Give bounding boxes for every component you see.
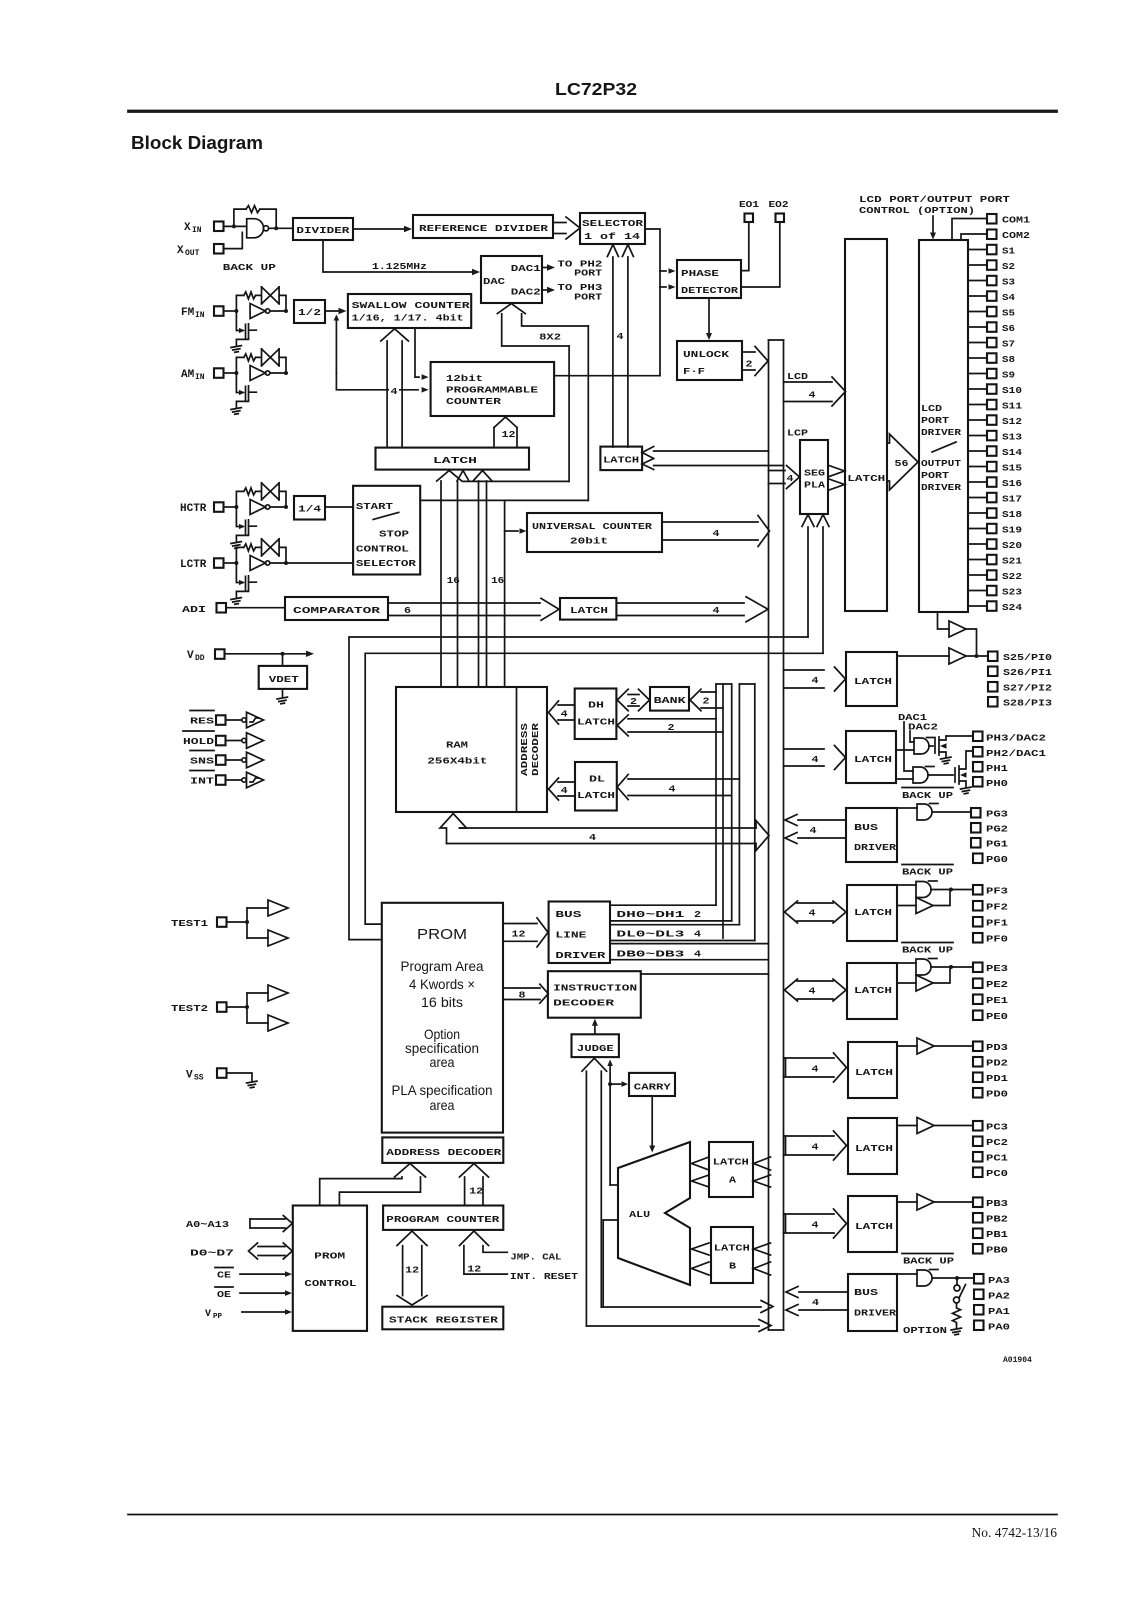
wire weave verticals to bus line driver bbox=[716, 683, 732, 685]
svg-text:S14: S14 bbox=[1002, 447, 1022, 458]
block CARRY bbox=[629, 1073, 675, 1096]
svg-text:S9: S9 bbox=[1002, 370, 1015, 381]
svg-text:S10: S10 bbox=[1002, 385, 1022, 396]
wire XOUT to NAND bbox=[224, 232, 243, 248]
svg-text:AM: AM bbox=[181, 369, 195, 381]
pad S19 bbox=[968, 528, 987, 530]
pad EO2 bbox=[776, 214, 785, 223]
svg-text:TEST2: TEST2 bbox=[171, 1003, 208, 1014]
svg-text:16 bits: 16 bits bbox=[421, 994, 463, 1010]
pad PE0 bbox=[973, 1011, 983, 1021]
block latch PC bbox=[848, 1118, 897, 1174]
wire divider to reference divider bbox=[353, 228, 404, 230]
block PHASE DETECTOR bbox=[677, 260, 741, 298]
bus program counter to address decoder 12 bbox=[464, 1177, 466, 1206]
svg-text:4: 4 bbox=[787, 473, 794, 484]
svg-text:PA1: PA1 bbox=[988, 1306, 1010, 1317]
svg-text:ADI: ADI bbox=[182, 604, 206, 615]
block INSTRUCTION DECODER bbox=[548, 971, 641, 1018]
svg-text:S22: S22 bbox=[1002, 571, 1022, 582]
bus 4 to latch PD bbox=[784, 1057, 835, 1059]
svg-text:LCD PORT/OUTPUT PORT: LCD PORT/OUTPUT PORT bbox=[859, 194, 1010, 205]
pad S7 bbox=[968, 342, 987, 344]
svg-text:PE1: PE1 bbox=[986, 995, 1008, 1006]
block BUS DRIVER PA bbox=[848, 1274, 897, 1331]
block COMPARATOR bbox=[285, 597, 388, 620]
svg-text:S23: S23 bbox=[1002, 587, 1022, 598]
bus 4 from PA driver to main bus bbox=[799, 1291, 848, 1293]
svg-text:12: 12 bbox=[405, 1265, 419, 1276]
resistor HCTR feedback bbox=[244, 488, 256, 495]
pad S22 bbox=[968, 574, 987, 576]
svg-text:VDET: VDET bbox=[269, 674, 299, 685]
pad S12 bbox=[968, 419, 987, 421]
ground FMIN FET bbox=[231, 346, 242, 353]
svg-text:PG2: PG2 bbox=[986, 824, 1008, 835]
svg-text:ADDRESS: ADDRESS bbox=[519, 723, 530, 776]
pad S13 bbox=[968, 435, 987, 437]
svg-text:PD2: PD2 bbox=[986, 1058, 1008, 1069]
block VDET bbox=[282, 654, 284, 666]
svg-text:Program Area: Program Area bbox=[401, 958, 484, 974]
svg-text:S2: S2 bbox=[1002, 261, 1015, 272]
pad PH2/DAC1 bbox=[973, 747, 983, 757]
svg-text:PORT: PORT bbox=[921, 470, 949, 481]
ground LCTR FET bbox=[231, 598, 242, 605]
wire VDD bbox=[225, 653, 307, 655]
wire ALU stub bbox=[603, 1219, 618, 1221]
svg-text:STOP: STOP bbox=[379, 529, 409, 540]
main data bus vertical pair bbox=[768, 340, 770, 1330]
wire FMIN feedback loop bbox=[236, 295, 243, 311]
svg-text:EO2: EO2 bbox=[769, 199, 789, 210]
bus RAM bottom 4 to main bus bbox=[440, 814, 467, 844]
transistor FMIN input FET bbox=[236, 311, 243, 331]
svg-text:PG3: PG3 bbox=[986, 809, 1008, 820]
svg-text:4: 4 bbox=[713, 605, 720, 616]
block 12bit PROGRAMMABLE COUNTER bbox=[431, 362, 554, 416]
bus PROM to instruction decoder 8 bbox=[503, 987, 540, 989]
svg-text:TEST1: TEST1 bbox=[171, 918, 208, 929]
bus PROM to bus line driver 12 bbox=[503, 923, 537, 925]
svg-text:S3: S3 bbox=[1002, 277, 1015, 288]
buffer PD3 bbox=[897, 1045, 917, 1047]
pad PE3 bbox=[973, 963, 983, 973]
pad PD2 bbox=[973, 1057, 983, 1067]
block latch PE bbox=[847, 963, 897, 1019]
svg-text:B: B bbox=[729, 1261, 736, 1272]
pad S9 bbox=[968, 373, 987, 375]
svg-text:1/4: 1/4 bbox=[298, 504, 321, 515]
svg-text:PE2: PE2 bbox=[986, 979, 1008, 990]
pad PB1 bbox=[973, 1229, 983, 1239]
svg-text:16: 16 bbox=[447, 575, 460, 586]
wire PLA spec line lower bbox=[365, 653, 823, 924]
svg-text:HOLD: HOLD bbox=[183, 736, 214, 747]
svg-text:8: 8 bbox=[519, 990, 526, 1001]
bus 4 from PG driver to main bus bbox=[798, 819, 846, 821]
svg-text:4: 4 bbox=[669, 784, 676, 795]
bus ADI latch to main bus bbox=[616, 602, 744, 604]
svg-text:PORT: PORT bbox=[921, 415, 949, 426]
svg-text:PA3: PA3 bbox=[988, 1275, 1010, 1286]
pad PC3 bbox=[973, 1121, 983, 1131]
svg-text:PC0: PC0 bbox=[986, 1168, 1008, 1179]
svg-text:PB0: PB0 bbox=[986, 1245, 1008, 1256]
svg-text:FM: FM bbox=[181, 307, 195, 319]
pad HOLD with buffer bbox=[183, 730, 214, 732]
wire programmable counter output bbox=[554, 375, 660, 377]
bus DAC 8X2 bbox=[502, 314, 589, 346]
inverter LCTR bbox=[250, 556, 265, 571]
block wide latch L1 bbox=[376, 448, 530, 470]
transistor PH2 FET bbox=[928, 774, 953, 776]
pad S14 bbox=[968, 450, 987, 452]
svg-text:ADDRESS DECODER: ADDRESS DECODER bbox=[386, 1147, 501, 1158]
svg-text:LC72P32: LC72P32 bbox=[555, 79, 637, 99]
svg-text:DRIVER: DRIVER bbox=[854, 1308, 896, 1319]
svg-text:PF3: PF3 bbox=[986, 886, 1008, 897]
svg-text:PD1: PD1 bbox=[986, 1073, 1008, 1084]
wire DH0-DH1 shelf bbox=[610, 904, 716, 906]
block JUDGE bbox=[572, 1034, 619, 1057]
buffer PB3 bbox=[897, 1201, 917, 1203]
svg-text:12: 12 bbox=[502, 429, 516, 440]
wire AM join arrow up bbox=[335, 318, 337, 374]
svg-text:BACK UP: BACK UP bbox=[902, 790, 953, 801]
bus universal counter to main bus bbox=[662, 521, 758, 523]
svg-text:DECODER: DECODER bbox=[530, 723, 541, 776]
svg-text:START: START bbox=[356, 501, 393, 512]
block latch PD bbox=[848, 1042, 897, 1098]
resistor AMIN feedback bbox=[244, 354, 256, 361]
wire XIN to NAND bbox=[224, 225, 247, 227]
bus latch to selector 4 bbox=[612, 257, 614, 447]
pad PF1 bbox=[973, 917, 983, 927]
svg-text:4: 4 bbox=[809, 390, 816, 401]
svg-text:LATCH: LATCH bbox=[577, 790, 615, 801]
wire osc feedback right bbox=[260, 209, 276, 228]
svg-text:V: V bbox=[205, 1309, 211, 1320]
svg-text:PH3/DAC2: PH3/DAC2 bbox=[986, 733, 1046, 744]
pad HCTR bbox=[214, 502, 224, 512]
svg-text:SELECTOR: SELECTOR bbox=[356, 558, 416, 569]
svg-text:LATCH: LATCH bbox=[713, 1157, 749, 1168]
svg-text:56: 56 bbox=[895, 458, 909, 469]
wire AMIN input bbox=[224, 372, 237, 374]
svg-text:area: area bbox=[430, 1054, 455, 1070]
svg-text:SEG: SEG bbox=[804, 468, 825, 479]
bus main bus to latch B bbox=[754, 1243, 771, 1255]
svg-text:PORT: PORT bbox=[574, 291, 602, 302]
alu ALU bbox=[618, 1142, 690, 1285]
pad INT with buffer bbox=[190, 770, 214, 772]
inverter HCTR bbox=[250, 500, 265, 515]
ground AMIN FET bbox=[231, 408, 242, 415]
svg-text:20bit: 20bit bbox=[570, 536, 608, 547]
wire HCTR loop right bbox=[279, 491, 286, 507]
bus unlock to main bus 2 bbox=[742, 351, 755, 353]
svg-text:COM2: COM2 bbox=[1002, 230, 1030, 241]
svg-text:DAC2: DAC2 bbox=[908, 722, 938, 733]
svg-text:PE3: PE3 bbox=[986, 963, 1008, 974]
svg-text:D0~D7: D0~D7 bbox=[190, 1248, 234, 1259]
pad PD1 bbox=[973, 1073, 983, 1083]
pad XOUT bbox=[214, 244, 224, 254]
svg-text:CARRY: CARRY bbox=[634, 1082, 671, 1093]
svg-text:BACK UP: BACK UP bbox=[902, 867, 953, 878]
svg-text:V: V bbox=[187, 650, 194, 662]
pad S2 bbox=[968, 264, 987, 266]
svg-text:CONTROL: CONTROL bbox=[304, 1278, 356, 1289]
bus DH to BANK bidirectional 2 bbox=[628, 694, 639, 696]
svg-text:4: 4 bbox=[812, 754, 819, 765]
svg-text:BUS: BUS bbox=[854, 1287, 878, 1298]
svg-text:LATCH: LATCH bbox=[570, 605, 608, 616]
svg-text:LATCH: LATCH bbox=[854, 985, 892, 996]
bus latch B to ALU bbox=[692, 1243, 710, 1255]
svg-text:12: 12 bbox=[467, 1264, 481, 1275]
wire HCTR input bbox=[224, 506, 237, 508]
wire FMIN loop right bbox=[279, 295, 286, 311]
and gate PH2 bbox=[896, 778, 913, 780]
svg-text:COM1: COM1 bbox=[1002, 215, 1030, 226]
block STACK REGISTER bbox=[382, 1307, 503, 1330]
svg-text:12: 12 bbox=[469, 1186, 483, 1197]
and gate PH3 bbox=[896, 749, 914, 751]
svg-text:DD: DD bbox=[195, 654, 205, 663]
pad PA1 bbox=[974, 1305, 984, 1315]
svg-text:6: 6 bbox=[404, 605, 411, 616]
pad PB3 bbox=[973, 1198, 983, 1208]
svg-text:4: 4 bbox=[589, 832, 596, 843]
pad S25/PI0 bbox=[988, 652, 998, 662]
svg-text:PHASE: PHASE bbox=[681, 268, 719, 279]
svg-text:S4: S4 bbox=[1002, 292, 1015, 303]
svg-text:4: 4 bbox=[391, 386, 398, 397]
svg-text:area: area bbox=[430, 1097, 455, 1113]
svg-text:COMPARATOR: COMPARATOR bbox=[293, 605, 380, 616]
pad S16 bbox=[968, 481, 987, 483]
pad S18 bbox=[968, 512, 987, 514]
svg-text:LATCH: LATCH bbox=[854, 754, 892, 765]
pad PD0 bbox=[973, 1088, 983, 1098]
wire start stop output bbox=[420, 499, 588, 501]
svg-text:X: X bbox=[184, 222, 191, 234]
pad PF2 bbox=[973, 901, 983, 911]
svg-text:JMP. CAL: JMP. CAL bbox=[510, 1252, 561, 1263]
block latch PF bbox=[847, 885, 897, 941]
wire DAC1 output bbox=[542, 267, 547, 269]
svg-text:S7: S7 bbox=[1002, 339, 1015, 350]
wire phase detector to unlock FF bbox=[708, 298, 710, 333]
wire LCTR input bbox=[224, 562, 237, 564]
pad PC0 bbox=[973, 1168, 983, 1178]
svg-text:DRIVER: DRIVER bbox=[921, 482, 961, 493]
ground HCTR FET bbox=[231, 542, 242, 549]
svg-text:S1: S1 bbox=[1002, 246, 1015, 257]
svg-text:PD3: PD3 bbox=[986, 1042, 1008, 1053]
label BACK UP PE bbox=[902, 942, 953, 944]
svg-text:V: V bbox=[186, 1070, 193, 1082]
svg-text:PLA specification: PLA specification bbox=[392, 1082, 493, 1098]
svg-text:4: 4 bbox=[812, 1297, 819, 1308]
svg-text:LATCH: LATCH bbox=[714, 1243, 750, 1254]
svg-text:BACK UP: BACK UP bbox=[223, 262, 276, 273]
bus latch A to ALU bbox=[692, 1157, 710, 1170]
svg-text:DL: DL bbox=[589, 774, 605, 785]
svg-text:DAC: DAC bbox=[483, 276, 505, 287]
svg-text:PG0: PG0 bbox=[986, 854, 1008, 865]
svg-text:S20: S20 bbox=[1002, 540, 1022, 551]
svg-text:S17: S17 bbox=[1002, 494, 1022, 505]
block LATCH A bbox=[709, 1142, 753, 1197]
block latch PH bbox=[846, 731, 896, 783]
pad PF3 bbox=[973, 885, 983, 895]
svg-text:2: 2 bbox=[703, 696, 710, 707]
wire ADI to comparator bbox=[226, 607, 285, 609]
svg-text:EO1: EO1 bbox=[739, 199, 759, 210]
svg-text:PROM: PROM bbox=[417, 926, 467, 943]
svg-text:CE: CE bbox=[217, 1270, 231, 1281]
svg-text:PG1: PG1 bbox=[986, 839, 1008, 850]
svg-text:LATCH: LATCH bbox=[854, 676, 892, 687]
svg-text:DRIVER: DRIVER bbox=[921, 427, 961, 438]
svg-text:S24: S24 bbox=[1002, 602, 1022, 613]
wire DL0-DL3 shelf bbox=[610, 924, 739, 926]
wire ALU flag to JUDGE and CARRY bbox=[609, 1067, 611, 1186]
bus DH latch to RAM 4 bbox=[558, 704, 575, 706]
pad RES with buffer bbox=[190, 710, 214, 712]
svg-text:DAC1: DAC1 bbox=[511, 263, 541, 274]
wire LCTR loop right bbox=[279, 547, 286, 563]
wire COM2 bbox=[961, 234, 987, 240]
block PROM CONTROL bbox=[293, 1206, 367, 1331]
pad S27/PI2 bbox=[988, 682, 998, 692]
nand gate U-osc bbox=[247, 219, 264, 238]
pad S17 bbox=[968, 497, 987, 499]
pad PG0 bbox=[973, 854, 983, 864]
svg-text:2: 2 bbox=[630, 696, 637, 707]
svg-text:HCTR: HCTR bbox=[180, 503, 207, 515]
block SEG PLA bbox=[800, 440, 828, 514]
varactor-bowtie HCTR bbox=[256, 483, 280, 500]
switch PA option bbox=[956, 1278, 958, 1284]
svg-text:DL0~DL3: DL0~DL3 bbox=[616, 929, 684, 940]
resistor FMIN feedback bbox=[244, 292, 256, 299]
svg-text:LATCH: LATCH bbox=[855, 1221, 893, 1232]
ground PA option bbox=[956, 1324, 958, 1328]
block UNIVERSAL COUNTER 20bit bbox=[527, 513, 662, 552]
wire driver to S25 buffers bbox=[938, 612, 950, 629]
bus latch to programmable counter 12 bbox=[493, 428, 495, 448]
wire NAND output to divider bbox=[269, 227, 293, 229]
block BUS LINE DRIVER bbox=[549, 902, 610, 964]
svg-text:4: 4 bbox=[809, 908, 816, 919]
svg-text:PE0: PE0 bbox=[986, 1011, 1008, 1022]
and gate PA3 bbox=[897, 1273, 917, 1275]
svg-text:A0~A13: A0~A13 bbox=[186, 1219, 229, 1230]
svg-text:F·F: F·F bbox=[683, 366, 705, 377]
svg-text:256X4bit: 256X4bit bbox=[427, 756, 487, 767]
svg-text:1.125MHz: 1.125MHz bbox=[372, 261, 427, 272]
svg-text:12: 12 bbox=[512, 929, 526, 940]
pad S3 bbox=[968, 280, 987, 282]
resistor PA option bbox=[953, 1303, 961, 1324]
pad PC1 bbox=[973, 1152, 983, 1162]
buffer PC3 bbox=[897, 1125, 917, 1127]
block DH LATCH bbox=[575, 689, 617, 740]
wire HCTR feedback loop bbox=[236, 491, 243, 507]
svg-text:PLA: PLA bbox=[804, 480, 825, 491]
svg-text:LCD: LCD bbox=[787, 371, 808, 382]
svg-text:4: 4 bbox=[812, 675, 819, 686]
pad COM1 bbox=[987, 214, 997, 224]
svg-text:SNS: SNS bbox=[190, 756, 214, 767]
wire divider to DAC 1.125MHz bbox=[323, 240, 472, 272]
svg-text:DECODER: DECODER bbox=[553, 998, 614, 1009]
resistor R-osc bbox=[246, 206, 260, 213]
and gate PG3 bbox=[897, 807, 917, 809]
svg-text:PC1: PC1 bbox=[986, 1153, 1008, 1164]
svg-text:12bit: 12bit bbox=[446, 373, 483, 384]
svg-text:PC3: PC3 bbox=[986, 1122, 1008, 1133]
svg-text:SS: SS bbox=[194, 1074, 204, 1083]
and gate PF3 bbox=[897, 884, 916, 886]
svg-text:LATCH: LATCH bbox=[577, 717, 615, 728]
svg-text:LCP: LCP bbox=[787, 428, 808, 439]
pad CE input bbox=[215, 1267, 233, 1269]
block latch L2 under selector bbox=[600, 447, 642, 471]
svg-text:OE: OE bbox=[217, 1289, 231, 1300]
pad AMIN bbox=[214, 368, 224, 378]
wire AMIN loop right bbox=[279, 357, 286, 373]
svg-text:INT. RESET: INT. RESET bbox=[510, 1271, 578, 1282]
svg-text:LATCH: LATCH bbox=[603, 455, 639, 466]
block latch ADI bbox=[560, 598, 616, 620]
svg-text:LCTR: LCTR bbox=[180, 559, 207, 571]
block RAM 256X4bit with address decoder bbox=[396, 687, 547, 812]
pad S23 bbox=[968, 590, 987, 592]
svg-text:RES: RES bbox=[190, 716, 214, 727]
svg-text:1/2: 1/2 bbox=[298, 307, 321, 318]
buffer PE2 bbox=[897, 982, 916, 984]
svg-text:DH: DH bbox=[588, 700, 604, 711]
bus JMP CAL INT RESET into program counter bbox=[460, 1231, 489, 1246]
svg-text:4: 4 bbox=[694, 929, 701, 940]
svg-text:Block Diagram: Block Diagram bbox=[131, 133, 263, 153]
svg-text:PROM: PROM bbox=[314, 1250, 345, 1261]
block divide-by-4 bbox=[294, 496, 325, 520]
bus 4 to latch PH bbox=[784, 748, 825, 750]
pad S8 bbox=[968, 357, 987, 359]
block LATCH B bbox=[711, 1227, 753, 1283]
wire EO2 to phase detector bbox=[741, 222, 780, 287]
buffer S25 upper bbox=[949, 621, 966, 637]
bus ALU result to main bus bbox=[601, 1306, 761, 1308]
svg-text:DAC2: DAC2 bbox=[511, 287, 541, 298]
bus RAM to latch 16 A bbox=[440, 481, 442, 687]
wire to universal counter bbox=[504, 500, 506, 687]
svg-text:REFERENCE DIVIDER: REFERENCE DIVIDER bbox=[419, 223, 548, 234]
svg-text:OUT: OUT bbox=[185, 249, 200, 258]
block UNLOCK F.F bbox=[677, 341, 742, 380]
svg-text:PH1: PH1 bbox=[986, 763, 1008, 774]
svg-text:4: 4 bbox=[810, 825, 817, 836]
label BACK UP PF bbox=[902, 864, 953, 866]
bus 4 to latch PB bbox=[784, 1213, 835, 1215]
wire FMIN input bbox=[224, 310, 237, 312]
